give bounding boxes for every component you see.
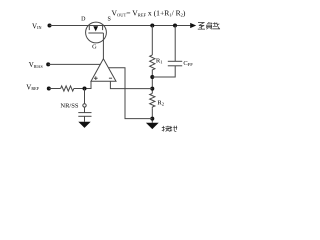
junction dot R1-CFF bbox=[150, 75, 154, 79]
label jie-di (ground) bbox=[162, 126, 177, 132]
junction dot FB bbox=[150, 87, 154, 91]
transistor Q1 drain tick bbox=[88, 26, 90, 31]
wire capacitor to ground bbox=[84, 116, 86, 122]
capacitor Css top plate bbox=[78, 112, 91, 114]
transistor Q1 body arrow bbox=[93, 26, 98, 31]
ground symbol right bbox=[146, 123, 159, 129]
transistor Q1 source tick bbox=[102, 26, 104, 31]
output arrowhead to load bbox=[190, 23, 196, 28]
svg-text:NR/SS: NR/SS bbox=[60, 103, 78, 110]
wire VREF to resistor bbox=[49, 88, 61, 90]
capacitor CFF bottom plate bbox=[168, 65, 182, 67]
wire op-amp ground pin to ground rail bbox=[109, 68, 153, 119]
junction dot R2-ground bbox=[150, 117, 154, 121]
char jie bbox=[162, 126, 171, 132]
char di bbox=[170, 126, 178, 132]
wire op-amp minus input to FB node bbox=[110, 81, 152, 88]
wire R1 to node FB bbox=[151, 72, 153, 93]
op-amp U1 error amplifier bbox=[91, 59, 116, 82]
transistor Q1 pass PMOS circle bbox=[86, 22, 107, 43]
wire op-amp output to gate bbox=[102, 33, 104, 59]
wire VIN to output rail bbox=[50, 25, 191, 27]
svg-text:VREF: VREF bbox=[26, 83, 39, 91]
svg-text:VOUT= VREF x (1+R1/ R2): VOUT= VREF x (1+R1/ R2) bbox=[112, 8, 186, 17]
wire NR/SS branch upper bbox=[84, 89, 86, 104]
label zhi-fu-zai (to load) bbox=[198, 22, 220, 29]
resistor R1 bbox=[150, 55, 155, 72]
resistor Rref series bbox=[61, 86, 74, 91]
capacitor Css bottom plate bbox=[78, 115, 91, 117]
node NR/SS open terminal bbox=[83, 104, 86, 107]
svg-text:VIN: VIN bbox=[32, 22, 41, 30]
char zhi bbox=[198, 23, 205, 30]
wire rail down to R1 bbox=[151, 26, 153, 56]
svg-text:D: D bbox=[81, 16, 86, 22]
node VBIAS terminal dot bbox=[46, 62, 50, 66]
node VIN terminal dot bbox=[48, 24, 52, 28]
svg-text:R1: R1 bbox=[156, 58, 163, 65]
char fu bbox=[207, 22, 212, 29]
svg-text:CFF: CFF bbox=[183, 60, 193, 67]
wire VBIAS to op-amp bbox=[48, 63, 100, 65]
ground symbol left bbox=[78, 122, 90, 128]
svg-text:G: G bbox=[92, 44, 97, 51]
svg-text:VBIAS: VBIAS bbox=[29, 61, 43, 69]
junction dot rail-CFF bbox=[173, 24, 177, 28]
wire CFF bottom to R1-CFF junction bbox=[152, 66, 175, 77]
char zai bbox=[212, 22, 220, 29]
wire rail down to CFF bbox=[174, 26, 176, 62]
svg-text:S: S bbox=[108, 16, 111, 22]
wire resistor to op-amp plus input bbox=[74, 81, 91, 88]
wire NR/SS to capacitor bbox=[84, 107, 86, 113]
capacitor CFF top plate bbox=[168, 60, 182, 62]
op-amp plus sign bbox=[94, 76, 98, 80]
transistor Q1 gate plate bbox=[88, 32, 103, 34]
wire R2 to ground node bbox=[151, 109, 153, 123]
junction dot rail-R1 bbox=[150, 24, 154, 28]
svg-text:R2: R2 bbox=[157, 99, 164, 106]
op-amp minus sign bbox=[109, 77, 112, 79]
resistor R2 bbox=[150, 93, 155, 108]
junction dot NR/SS tap bbox=[83, 87, 87, 91]
node VREF terminal dot bbox=[47, 87, 51, 91]
